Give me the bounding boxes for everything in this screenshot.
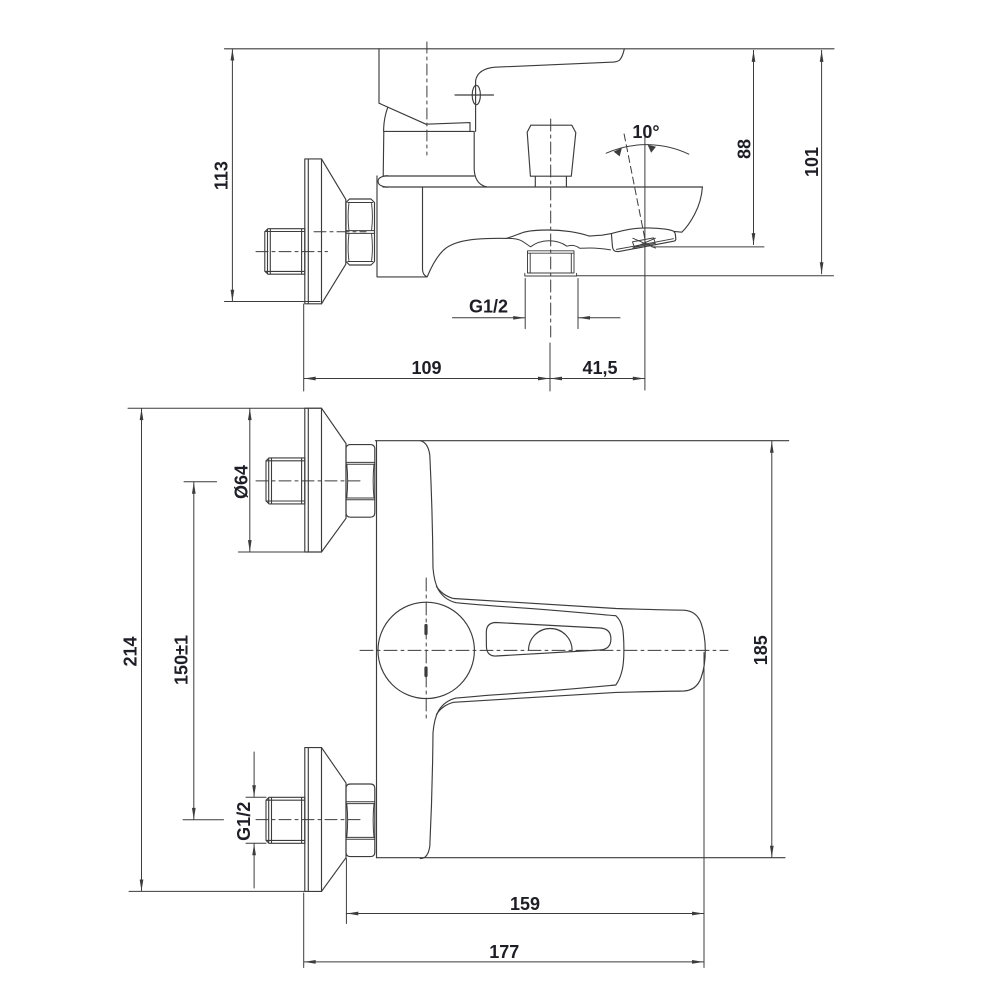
body front edge (423, 187, 427, 277)
escutcheon plate (top view) (305, 159, 322, 304)
cartridge centerline (426, 42, 428, 155)
upper hex nut (plan) (346, 445, 375, 518)
dim 101 reference (577, 275, 834, 277)
aerator end piece (611, 228, 675, 252)
nut centerline (314, 231, 366, 233)
upper escutcheon cone (322, 408, 347, 552)
aerator cross X (633, 238, 656, 248)
lever handle (476, 49, 625, 131)
outlet nipple G1/2 (525, 251, 577, 276)
outlet boss collar (505, 238, 611, 249)
wall pipe thread (top view) (265, 229, 305, 275)
dome centerline thick dashes (424, 626, 427, 676)
svg-text:214: 214 (121, 636, 141, 666)
svg-text:109: 109 (411, 358, 441, 378)
lever slot (486, 623, 611, 657)
pipe centerline (256, 251, 328, 253)
svg-text:159: 159 (510, 894, 540, 914)
faucet head outline (379, 49, 470, 132)
svg-text:Ø64: Ø64 (231, 465, 251, 499)
dim 88 line (753, 50, 755, 244)
dim 109 / 41,5 extension lines (304, 304, 550, 391)
svg-text:88: 88 (734, 139, 754, 159)
body face and bottom (377, 176, 426, 277)
lever grip outline (437, 587, 706, 715)
dim 109 line (304, 378, 549, 380)
dim 101 line (821, 50, 823, 273)
dome vertical centerline (425, 578, 427, 722)
svg-text:G1/2: G1/2 (469, 297, 508, 317)
body top line (375, 440, 788, 442)
dim 214 bottom reference (129, 890, 306, 892)
knob/outlet centerline (550, 119, 552, 337)
lower escutcheon cone (322, 748, 347, 892)
dim 64 bottom reference (238, 551, 320, 553)
dim 214 line (141, 409, 143, 891)
lower union centerline (256, 819, 360, 821)
diverter knob (527, 125, 576, 187)
dim 185 line (771, 441, 773, 857)
top reference line (128, 407, 321, 409)
lower escutcheon plate (plan) (305, 748, 322, 892)
dim 88 reference (652, 246, 764, 248)
dim diameter 64 line (249, 409, 251, 552)
hex nut (top view) (346, 199, 375, 265)
10-degree tilt vertical line (644, 137, 646, 390)
dim 177 extension line (303, 893, 305, 968)
escutcheon cone (322, 159, 346, 304)
svg-text:41,5: 41,5 (582, 358, 617, 378)
dim 177 line (304, 961, 703, 963)
arc arrowheads (614, 148, 622, 157)
lower hex nut (plan) (346, 784, 375, 857)
svg-text:177: 177 (489, 942, 519, 962)
top reference line (225, 48, 835, 50)
lower wall pipe thread (plan) (266, 797, 305, 843)
svg-text:185: 185 (751, 635, 771, 665)
upper escutcheon plate (plan) (305, 408, 322, 552)
barrel left end cap (378, 176, 388, 188)
dim G1/2 lower extension lines (246, 797, 266, 843)
upper wall pipe thread (plan) (266, 458, 305, 504)
upper union centerline (256, 480, 360, 482)
svg-text:101: 101 (802, 147, 822, 177)
dim 150 tick lines (183, 482, 224, 820)
dim G1/2 lower lines (253, 752, 255, 797)
dim 41,5 line (551, 378, 645, 380)
dim G1/2 extension lines (525, 279, 578, 329)
plan horizontal centerline (360, 649, 728, 651)
svg-text:113: 113 (212, 161, 232, 190)
lever pivot ellipse (472, 85, 480, 104)
aerator inner bottom line (617, 239, 674, 250)
slot semicircle (529, 628, 573, 650)
spout tip curve (674, 187, 702, 232)
dim 159 line (347, 913, 704, 915)
body right edge into lever base contour (420, 441, 624, 859)
svg-text:G1/2: G1/2 (234, 802, 254, 841)
spout underside curve (427, 230, 611, 277)
pivot cross line (455, 94, 494, 96)
body bottom line (377, 857, 786, 859)
body collar band (383, 131, 487, 187)
cartridge dome circle (378, 602, 474, 698)
body left edge (376, 441, 378, 858)
dim 113 bottom reference (225, 301, 321, 303)
dim 113 line (231, 49, 233, 301)
dim G1/2 lines (453, 317, 525, 319)
dim 159 extension lines (346, 653, 704, 968)
cartridge side arc (384, 108, 388, 132)
10-degree tilted dashed line (624, 134, 646, 245)
10-degree arc (606, 145, 689, 155)
dim 150 line (193, 482, 195, 819)
svg-text:10°: 10° (632, 122, 659, 142)
svg-text:150±1: 150±1 (171, 635, 191, 685)
aerator cross box (633, 238, 656, 247)
barrel top line (383, 186, 702, 188)
